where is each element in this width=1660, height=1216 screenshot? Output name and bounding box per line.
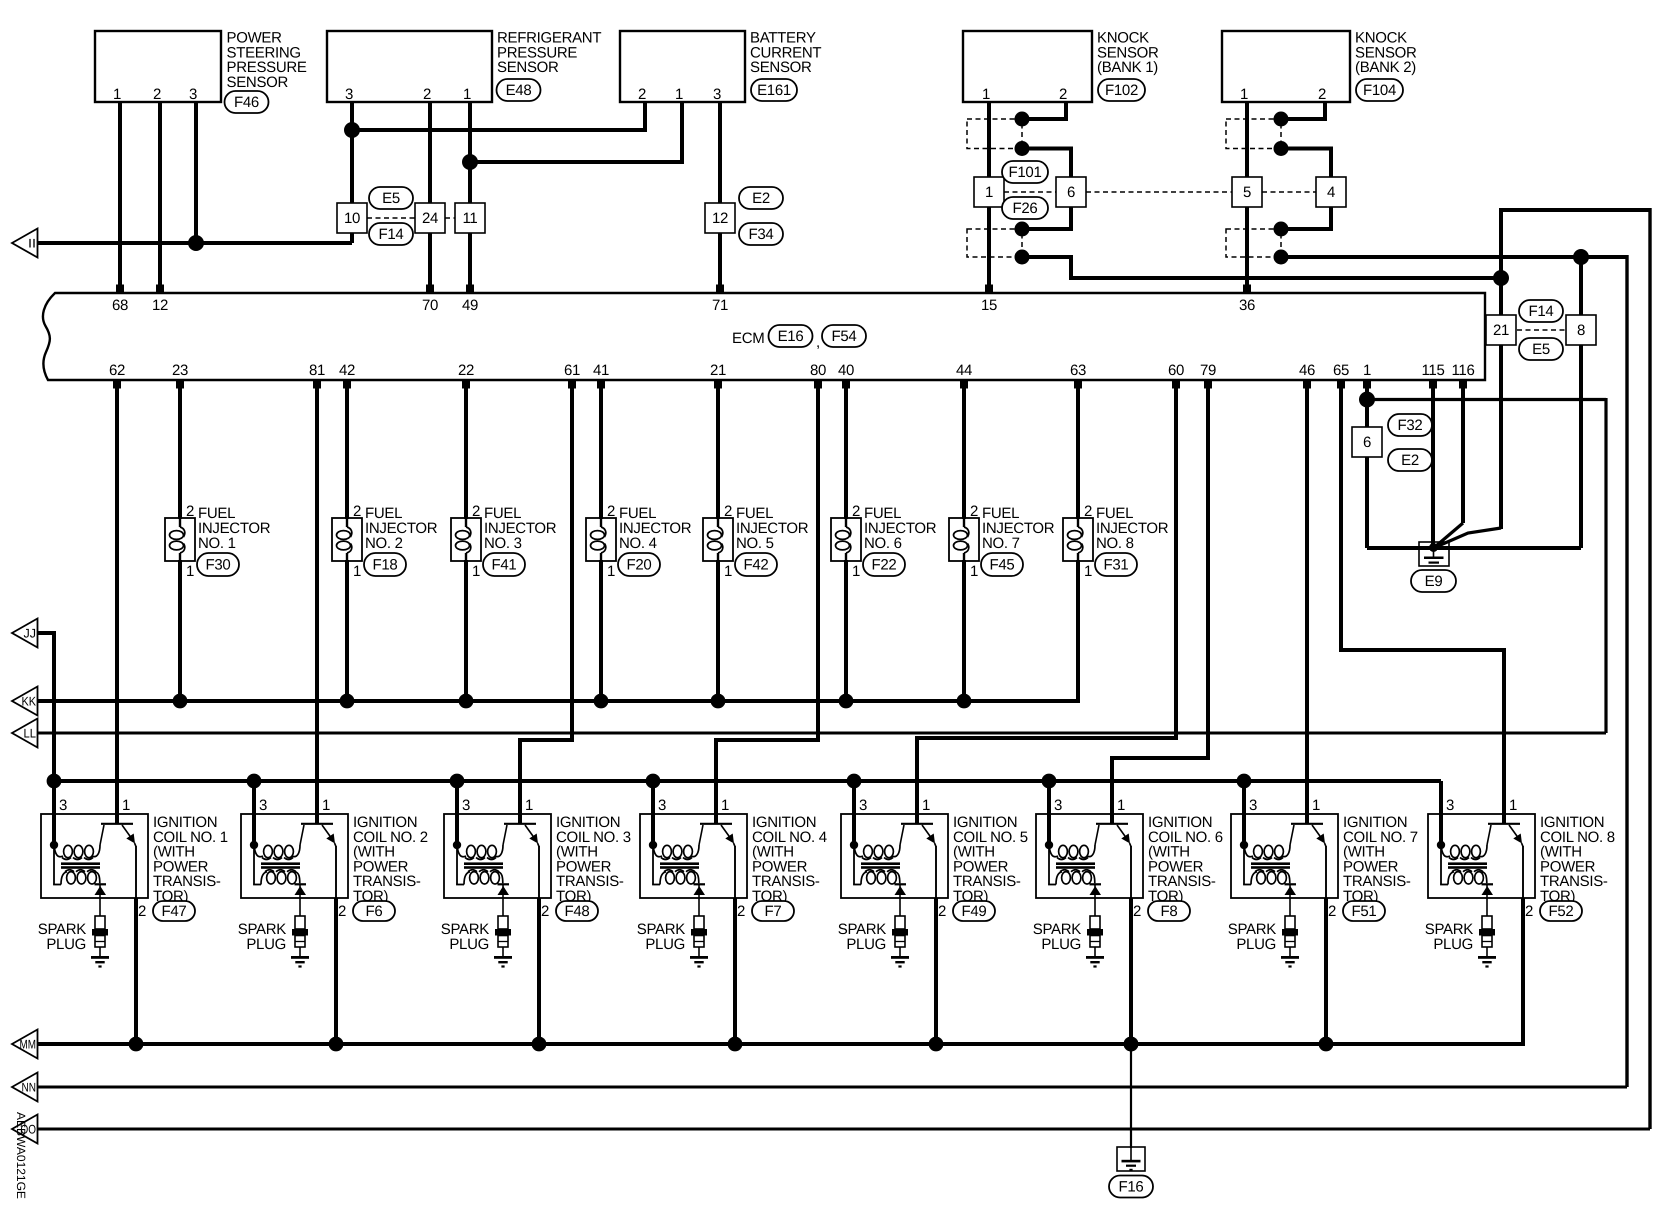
fuel injector no.3 symbol (F41): [451, 518, 481, 561]
junction dot injector no.2 / KK bus: [340, 694, 355, 709]
svg-text:6: 6: [1067, 184, 1075, 201]
wire pin-3 bus to ignition coil no.8 pin 3: [1439, 781, 1443, 845]
svg-text:F22: F22: [872, 557, 897, 574]
label IGNITION COIL NO. 6 (WITH POWER TRANSISTOR): [1148, 814, 1223, 905]
wire fuel injector no.6 pin 1 to KK bus: [844, 560, 848, 701]
wire fuel injector no.7 pin 1 to KK bus: [962, 560, 966, 701]
label IGNITION COIL NO. 1 (WITH POWER TRANSISTOR): [153, 814, 228, 905]
dashed link box5-box4: [1262, 191, 1316, 193]
wire ECM pin 1 vertical through connector 6 to E9 run: [1365, 388, 1369, 548]
svg-text:NO. 4: NO. 4: [619, 535, 657, 552]
svg-text:F54: F54: [832, 328, 857, 345]
label FUEL INJECTOR NO. 7: [982, 505, 1055, 552]
spark plug of ignition coil no.3: [495, 916, 511, 956]
svg-text:E48: E48: [506, 82, 532, 99]
wire pin-3 bus to ignition coil no.3 pin 3: [455, 781, 459, 845]
ground symbol of spark plug no.7: [1281, 956, 1299, 968]
svg-text:(BANK 1): (BANK 1): [1097, 59, 1158, 76]
connector box 21 (F14/E5): [1486, 315, 1516, 345]
ignition coil no.6 box (F8): [1036, 814, 1143, 898]
power transistor of ignition coil no.5: [900, 824, 936, 898]
svg-text:E5: E5: [1532, 341, 1550, 358]
pin labels 3/1/2 ignition coil no.2: [259, 797, 346, 920]
label FUEL INJECTOR NO. 8: [1096, 505, 1169, 552]
connector box 8 (F14/E5): [1566, 315, 1596, 345]
svg-text:F31: F31: [1104, 557, 1129, 574]
wire pin-3 bus to ignition coil no.7 pin 3: [1242, 781, 1246, 845]
svg-text:E161: E161: [757, 82, 791, 99]
knock sensor (bank 1) box F102: [963, 31, 1092, 102]
wire ignition coil no.3 pin 2 to MM bus: [537, 898, 541, 1044]
dashed link box10-box24-box11: [367, 217, 415, 219]
diode of ignition coil no.5: [895, 883, 907, 916]
wire ignition coil no.2 pin 2 to MM bus: [334, 898, 338, 1044]
ignition coil no.5 box (F49): [841, 814, 948, 898]
pin labels 3/1/2 ignition coil no.3: [462, 797, 549, 920]
connector oval E9: [1411, 570, 1456, 592]
svg-text:MM: MM: [20, 1037, 37, 1051]
junction dot shield drain / box 8 vertical: [1573, 249, 1589, 265]
svg-text:2: 2: [1318, 86, 1326, 103]
svg-text:79: 79: [1200, 362, 1216, 379]
pin labels 3/1/2 ignition coil no.4: [658, 797, 745, 920]
diode of ignition coil no.4: [694, 883, 706, 916]
pin labels 2/1 fuel injector no.5: [724, 503, 732, 580]
svg-text:F104: F104: [1363, 82, 1396, 99]
wire E161 pin 3 down to ECM pin 71: [718, 102, 722, 288]
ignition coil no.8 box (F52): [1428, 814, 1535, 898]
ground symbol of spark plug no.1: [91, 956, 109, 968]
junction dot coil no.2 pin3 / bus: [247, 774, 262, 789]
svg-text:NO. 7: NO. 7: [982, 535, 1020, 552]
wire pin-3 bus to ignition coil no.6 pin 3: [1047, 781, 1051, 845]
svg-text:1: 1: [1312, 797, 1320, 814]
label IGNITION COIL NO. 5 (WITH POWER TRANSISTOR): [953, 814, 1028, 905]
label SPARK PLUG (coil no.7): [1228, 921, 1277, 953]
svg-text:1: 1: [113, 86, 121, 103]
label FUEL INJECTOR NO. 2: [365, 505, 438, 552]
junction dot coil no.2 pin2 / MM bus: [329, 1037, 344, 1052]
spark plug of ignition coil no.8: [1479, 916, 1495, 956]
svg-text:NO. 1: NO. 1: [198, 535, 236, 552]
fuel injector no.4 symbol (F20): [586, 518, 616, 561]
connector oval F14 (right): [1519, 300, 1563, 322]
svg-text:1: 1: [322, 797, 330, 814]
wire NN bus: [37, 1086, 1627, 1089]
svg-text:F45: F45: [990, 557, 1015, 574]
connector oval E161: [751, 79, 797, 101]
svg-text:1: 1: [985, 184, 993, 201]
junction dot coil no.6 pin3 / bus: [1042, 774, 1057, 789]
wire E48 pin 1 down to connector box 11 and ECM pin 49: [468, 102, 472, 288]
wire ECM pin 65 to ignition coil no.8 pin 1: [1341, 388, 1504, 824]
junction dot bank1 shield top b: [1015, 141, 1030, 156]
ground symbol of spark plug no.5: [891, 956, 909, 968]
junction dot E48 pin3 branch: [344, 122, 360, 138]
svg-text:1: 1: [122, 797, 130, 814]
svg-text:3: 3: [1054, 797, 1062, 814]
transformer of ignition coil no.7: [1240, 841, 1290, 885]
wire ignition coil no.7 pin 2 to MM bus: [1324, 898, 1328, 1044]
connector oval F32: [1388, 414, 1432, 436]
wire ECM pin 116 down: [1461, 388, 1465, 523]
svg-text:3: 3: [59, 797, 67, 814]
connector oval F102: [1098, 79, 1145, 101]
svg-text:PLUG: PLUG: [449, 936, 489, 953]
junction dot injector no.5 / KK bus: [711, 694, 726, 709]
svg-text:1: 1: [607, 563, 615, 580]
junction dot coil no.7 pin3 / bus: [1237, 774, 1252, 789]
wire fuel injector no.4 pin 1 to KK bus: [599, 560, 603, 701]
svg-text:,: ,: [816, 334, 820, 351]
connector oval F26: [1002, 197, 1048, 219]
diode of ignition coil no.8: [1482, 883, 1494, 916]
spark plug of ignition coil no.7: [1282, 916, 1298, 956]
spark plug of ignition coil no.5: [892, 916, 908, 956]
svg-text:81: 81: [309, 362, 325, 379]
svg-text:44: 44: [956, 362, 972, 379]
transformer of ignition coil no.2: [250, 841, 300, 885]
wire right edge vertical (OO loop): [1648, 208, 1651, 1129]
power transistor of ignition coil no.8: [1487, 824, 1523, 898]
svg-text:65: 65: [1333, 362, 1349, 379]
junction dot coil no.6 pin2 / MM bus: [1124, 1037, 1139, 1052]
svg-text:1: 1: [1363, 362, 1371, 379]
junction dot bank1 drain / vertical 21: [1493, 270, 1509, 286]
svg-text:SENSOR: SENSOR: [750, 59, 812, 76]
svg-text:61: 61: [564, 362, 580, 379]
svg-text:1: 1: [463, 86, 471, 103]
junction dot coil no.3 pin2 / MM bus: [532, 1037, 547, 1052]
svg-text:2: 2: [852, 503, 860, 520]
svg-text:71: 71: [712, 297, 728, 314]
svg-text:F18: F18: [373, 557, 398, 574]
svg-text:3: 3: [345, 86, 353, 103]
connector oval F54: [822, 325, 866, 347]
svg-text:2: 2: [737, 903, 745, 920]
svg-text:49: 49: [462, 297, 478, 314]
wire ignition coil no.1 pin 2 to MM bus: [134, 898, 138, 1044]
svg-text:1: 1: [922, 797, 930, 814]
connector box 6 (F32/E2): [1352, 427, 1382, 457]
label FUEL INJECTOR NO. 6: [864, 505, 937, 552]
pin labels 3/1/2 ignition coil no.5: [859, 797, 946, 920]
wire ignition coil no.4 pin 2 to MM bus: [733, 898, 737, 1044]
svg-text:8: 8: [1577, 322, 1585, 339]
connector oval F45: [981, 553, 1023, 576]
wire fuel injector no.1 pin 1 to KK bus: [178, 560, 182, 701]
wire ignition coil no.6 pin 2 to MM bus: [1129, 898, 1133, 1044]
ignition coil no.4 box (F7): [640, 814, 747, 898]
svg-text:3: 3: [462, 797, 470, 814]
power steering pressure sensor box F46: [95, 31, 221, 102]
power transistor of ignition coil no.2: [300, 824, 336, 898]
dashed shield box bank1 lower: [967, 229, 1022, 257]
connector oval E48: [497, 79, 541, 101]
connector box 10 (E5/F14): [337, 203, 367, 233]
wire vertical through connector 8 down to E9 run: [1579, 257, 1583, 548]
svg-text:21: 21: [1493, 322, 1509, 339]
junction dot bank1 shield lower a: [1015, 222, 1030, 237]
wire LL riser vertical: [1604, 398, 1607, 733]
diode of ignition coil no.7: [1285, 883, 1297, 916]
ground symbol of spark plug no.2: [291, 956, 309, 968]
junction dot F16 wire / MM bus: [1124, 1037, 1139, 1052]
connector oval F51: [1343, 901, 1385, 921]
junction dot coil no.4 pin3 / bus: [646, 774, 661, 789]
svg-text:1: 1: [1240, 86, 1248, 103]
fuel injector no.6 symbol (F22): [831, 518, 861, 561]
diode of ignition coil no.2: [295, 883, 307, 916]
svg-text:AEBWA0121GE: AEBWA0121GE: [14, 1112, 28, 1199]
wire knock sensor bank2 pin 2 jog: [1281, 102, 1325, 119]
svg-text:ECM: ECM: [732, 330, 764, 347]
svg-text:LL: LL: [24, 726, 37, 740]
wire ECM pin 80 to ignition coil no.4 pin 1: [716, 388, 818, 824]
wire E48 pin 2 down to connector box 24 and ECM pin 70: [428, 102, 432, 288]
svg-text:F51: F51: [1352, 903, 1377, 920]
svg-text:PLUG: PLUG: [846, 936, 886, 953]
page connector arrow MM: [12, 1030, 38, 1059]
power transistor of ignition coil no.6: [1095, 824, 1131, 898]
connector oval F34: [739, 223, 783, 245]
wire ignition coil pin-3 bus: [54, 779, 1441, 783]
svg-text:2: 2: [1059, 86, 1067, 103]
connector oval F46: [225, 91, 269, 113]
svg-text:NO. 8: NO. 8: [1096, 535, 1134, 552]
svg-text:60: 60: [1168, 362, 1184, 379]
svg-text:6: 6: [1363, 434, 1371, 451]
svg-text:F48: F48: [565, 903, 590, 920]
wire top-right link horizontal: [1501, 208, 1650, 212]
svg-text:1: 1: [1084, 563, 1092, 580]
wire ECM pin 44 to fuel injector no.7: [962, 388, 966, 519]
junction dot coil no.4 pin2 / MM bus: [728, 1037, 743, 1052]
label SPARK PLUG (coil no.2): [238, 921, 287, 953]
svg-text:3: 3: [1249, 797, 1257, 814]
connector oval F42: [735, 553, 777, 576]
transformer of ignition coil no.8: [1437, 841, 1487, 885]
page connector arrow II: [12, 229, 38, 258]
ground F16 symbol: [1122, 1147, 1141, 1171]
pin labels 2/1 fuel injector no.8: [1084, 503, 1092, 580]
pin labels 2/1 fuel injector no.2: [353, 503, 361, 580]
wire ECM pin1 branch horizontal to LL riser: [1367, 398, 1606, 401]
wire bank2 shield to connector box 4: [1281, 149, 1331, 178]
svg-text:36: 36: [1239, 297, 1255, 314]
connector oval F101: [1002, 161, 1048, 183]
ground symbol of spark plug no.8: [1478, 956, 1496, 968]
power transistor of ignition coil no.4: [699, 824, 735, 898]
wire knock sensor bank1 pin 2 jog: [1022, 102, 1066, 119]
junction dot bank2 shield lower b: [1274, 250, 1289, 265]
svg-text:3: 3: [1446, 797, 1454, 814]
wire knock sensor bank1 pin 1 to ECM pin 15: [987, 102, 991, 288]
wire pin-3 bus to ignition coil no.5 pin 3: [852, 781, 856, 845]
wire PSP pin 1 to ECM pin 68: [118, 102, 122, 288]
page connector arrow LL: [12, 719, 38, 748]
label SPARK PLUG (coil no.5): [838, 921, 887, 953]
svg-text:4: 4: [1327, 184, 1335, 201]
svg-text:NO. 6: NO. 6: [864, 535, 902, 552]
connector box 5 (F101/F26): [1232, 177, 1262, 207]
connector oval F7: [752, 901, 794, 921]
ground E9 symbol: [1429, 543, 1438, 552]
svg-text:12: 12: [152, 297, 168, 314]
connector oval F6: [353, 901, 395, 921]
label IGNITION COIL NO. 7 (WITH POWER TRANSISTOR): [1343, 814, 1418, 905]
junction dot E48 pin1 branch: [462, 154, 478, 170]
ground F16 box: [1117, 1147, 1145, 1171]
label SPARK PLUG (coil no.8): [1425, 921, 1474, 953]
fuel injector no.5 symbol (F42): [703, 518, 733, 561]
junction dot ECM pin1 branch: [1359, 392, 1375, 408]
page connector arrow KK: [12, 687, 38, 716]
svg-text:2: 2: [970, 503, 978, 520]
wire fuel injector no.3 pin 1 to KK bus: [464, 560, 468, 701]
svg-text:JJ: JJ: [24, 626, 37, 640]
pin labels 3/1/2 ignition coil no.1: [59, 797, 146, 920]
connector oval E5 (right): [1519, 338, 1563, 360]
svg-text:1: 1: [675, 86, 683, 103]
junction dot injector no.6 / KK bus: [839, 694, 854, 709]
svg-text:2: 2: [153, 86, 161, 103]
svg-text:NO. 2: NO. 2: [365, 535, 403, 552]
svg-text:1: 1: [724, 563, 732, 580]
power transistor of ignition coil no.7: [1290, 824, 1326, 898]
dashed link box6-box5: [1086, 191, 1232, 193]
svg-text:F6: F6: [366, 903, 383, 920]
diode of ignition coil no.1: [95, 883, 107, 916]
connector oval F14: [369, 223, 413, 245]
spark plug of ignition coil no.4: [691, 916, 707, 956]
wire fuel injector no.5 pin 1 to KK bus: [716, 560, 720, 701]
connector oval E5: [369, 187, 413, 209]
svg-text:F47: F47: [162, 903, 187, 920]
wire pin-3 bus to ignition coil no.2 pin 3: [252, 781, 256, 845]
ECM bottom pin stubs and numbers: [109, 362, 1475, 389]
connector oval E16: [769, 325, 813, 347]
connector box 6 (F101/F26): [1056, 177, 1086, 207]
page connector arrow JJ: [12, 619, 38, 648]
junction dot bank1 shield lower b: [1015, 250, 1030, 265]
junction dot injector no.1 / KK bus: [173, 694, 188, 709]
svg-text:2: 2: [1328, 903, 1336, 920]
power transistor of ignition coil no.1: [100, 824, 136, 898]
svg-text:1: 1: [353, 563, 361, 580]
svg-text:15: 15: [981, 297, 997, 314]
svg-text:23: 23: [172, 362, 188, 379]
svg-text:E5: E5: [382, 190, 400, 207]
svg-text:10: 10: [344, 210, 360, 227]
transformer of ignition coil no.3: [453, 841, 503, 885]
wire E9 ground run horizontal: [1367, 546, 1581, 550]
svg-text:70: 70: [422, 297, 438, 314]
wire OO bus: [37, 1128, 1650, 1131]
svg-text:1: 1: [852, 563, 860, 580]
connector oval F52: [1540, 901, 1582, 921]
dashed link box21-box8: [1517, 329, 1566, 331]
svg-text:2: 2: [938, 903, 946, 920]
svg-text:PLUG: PLUG: [1041, 936, 1081, 953]
svg-text:1: 1: [472, 563, 480, 580]
junction dot injector no.4 / KK bus: [594, 694, 609, 709]
label IGNITION COIL NO. 3 (WITH POWER TRANSISTOR): [556, 814, 631, 905]
ignition coil no.2 box (F6): [241, 814, 348, 898]
wire bank1 shield to connector box 6: [1022, 149, 1071, 178]
wire ECM pin 61 to ignition coil no.3 pin 1: [520, 388, 572, 824]
svg-text:2: 2: [1084, 503, 1092, 520]
wire ECM pin 41 to fuel injector no.4: [599, 388, 603, 519]
fuel injector no.1 symbol (F30): [165, 518, 195, 561]
svg-text:3: 3: [658, 797, 666, 814]
connector box 4 (F101/F26): [1316, 177, 1346, 207]
wire page connector II horizontal: [37, 241, 352, 245]
wire MM bus to ground F16: [1130, 1044, 1132, 1148]
svg-text:PLUG: PLUG: [1433, 936, 1473, 953]
label FUEL INJECTOR NO. 3: [484, 505, 557, 552]
wire fuel injector no.2 pin 1 to KK bus: [345, 560, 349, 701]
fuel injector no.8 symbol (F31): [1063, 518, 1093, 561]
svg-text:42: 42: [339, 362, 355, 379]
svg-text:41: 41: [593, 362, 609, 379]
wire PSP pin 2 to ECM pin 12: [158, 102, 162, 288]
pin labels 2/1 fuel injector no.3: [472, 503, 480, 580]
wire ECM pin 60 to ignition coil no.5 pin 1: [917, 388, 1176, 824]
svg-text:63: 63: [1070, 362, 1086, 379]
page connector arrow OO: [12, 1115, 38, 1144]
wire LL bus: [37, 732, 1606, 735]
wire JJ to ignition coil no.1 pin 3: [37, 633, 54, 845]
wire ECM pin 23 to fuel injector no.1: [178, 388, 182, 519]
label FUEL INJECTOR NO. 1: [198, 505, 271, 552]
connector box 1 (F101/F26): [974, 177, 1004, 207]
junction dot injector no.7 / KK bus: [957, 694, 972, 709]
ground symbol of spark plug no.3: [494, 956, 512, 968]
svg-text:40: 40: [838, 362, 854, 379]
power transistor of ignition coil no.3: [503, 824, 539, 898]
svg-text:NO. 3: NO. 3: [484, 535, 522, 552]
wire E48 pin 3 down to connector box 10: [350, 102, 354, 243]
wire knock sensor bank2 pin 1 to ECM pin 36: [1245, 102, 1249, 288]
svg-text:F14: F14: [379, 226, 404, 243]
svg-text:F102: F102: [1105, 82, 1138, 99]
ground E9 box: [1419, 542, 1449, 566]
ground symbol of spark plug no.4: [690, 956, 708, 968]
svg-text:1: 1: [186, 563, 194, 580]
svg-text:F52: F52: [1549, 903, 1574, 920]
svg-text:1: 1: [525, 797, 533, 814]
svg-text:1: 1: [1117, 797, 1125, 814]
connector oval E2: [739, 187, 783, 209]
wire E9 jog from connector 21: [1437, 528, 1501, 547]
junction dot bank2 shield top b: [1274, 141, 1289, 156]
junction dot bank2 shield top a: [1274, 112, 1289, 127]
svg-text:22: 22: [458, 362, 474, 379]
svg-text:F46: F46: [234, 94, 259, 111]
wire MM bus (ignition coil pin-2 bus): [37, 898, 1523, 1044]
svg-text:SENSOR: SENSOR: [227, 74, 289, 91]
transformer of ignition coil no.4: [649, 841, 699, 885]
svg-text:E2: E2: [752, 190, 770, 207]
wire ECM pin 115 down to ground E9: [1431, 388, 1435, 546]
refrigerant pressure sensor box E48: [327, 31, 492, 102]
svg-text:116: 116: [1451, 362, 1474, 379]
svg-text:NN: NN: [22, 1080, 37, 1094]
battery current sensor box E161: [620, 31, 745, 102]
svg-text:11: 11: [463, 210, 478, 227]
svg-text:3: 3: [713, 86, 721, 103]
